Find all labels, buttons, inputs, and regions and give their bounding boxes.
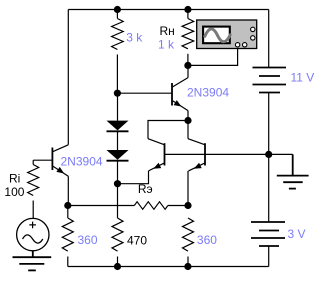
node Q4 emitter / 360R top	[184, 202, 191, 209]
node Q2 emitter / Q4 collector	[184, 117, 191, 124]
node 470 bottom	[114, 263, 121, 270]
svg-text:Rн: Rн	[160, 24, 175, 38]
wire bottom rail	[68, 266, 269, 268]
wire shared base rail to ground tap	[165, 153, 293, 155]
svg-text:Ri: Ri	[9, 172, 20, 186]
resistor 360 (right)	[183, 218, 194, 251]
wire Ri to AC source	[32, 201, 34, 219]
wire 360L to bottom rail	[67, 257, 69, 267]
wire 470 to bottom rail	[117, 257, 119, 267]
svg-text:2N3904: 2N3904	[187, 85, 229, 99]
wire Q3 emitter to diode node	[118, 171, 149, 184]
resistor Rэ	[68, 205, 135, 207]
transistor Q2 2N3904 (output follower)	[117, 65, 188, 120]
svg-text:3 k: 3 k	[126, 31, 143, 45]
node diode bottom / Q3 emitter	[114, 180, 121, 187]
wire scope probe to output node	[188, 49, 238, 66]
battery 3 V	[251, 154, 285, 266]
svg-text:3 V: 3 V	[288, 227, 306, 241]
wire Q1 base down to Ri	[32, 160, 34, 164]
resistor Ri 100	[28, 165, 39, 196]
wire Q1 emitter down to Re rail	[67, 176, 69, 205]
transistor Q3 2N3904 (mirrored, left of pair)	[148, 139, 165, 171]
wire node X (Q2 emitter) to T3 collector	[148, 121, 188, 139]
node 360R bottom	[184, 263, 191, 270]
svg-text:1 k: 1 k	[158, 37, 175, 51]
svg-text:100: 100	[4, 185, 24, 199]
node Q1 emitter / 360L top	[64, 202, 71, 209]
battery 11 V	[253, 68, 287, 93]
diode D1	[107, 93, 129, 131]
wire D2 down through crossing to 470	[117, 161, 119, 218]
wire top rail	[68, 9, 268, 11]
resistor 360 (left)	[67, 206, 69, 219]
svg-text:11 V: 11 V	[291, 71, 315, 85]
resistor 3k	[116, 10, 118, 19]
wire D1 to D2	[117, 131, 119, 150]
resistor 470	[112, 218, 123, 251]
node Q2 base / diode top	[114, 90, 121, 97]
svg-text:470: 470	[127, 234, 147, 248]
node output (Rн bottom)	[184, 62, 191, 69]
resistor Rн 1k	[187, 10, 189, 19]
wire 360R to bottom rail	[187, 257, 189, 267]
wire 3k to base node	[116, 55, 118, 94]
svg-text:360: 360	[78, 233, 98, 247]
node 11V/3V mid rail	[265, 151, 272, 158]
oscilloscope XSC1	[197, 20, 257, 49]
node top-3k	[114, 6, 121, 13]
ground (below AC source)	[13, 251, 52, 271]
AC source V1	[17, 218, 49, 250]
svg-text:Rэ: Rэ	[138, 182, 153, 196]
diode D2	[107, 150, 129, 161]
ground (right, mid node)	[277, 154, 309, 188]
svg-text:2N3904: 2N3904	[61, 154, 103, 168]
wire left vertical (Q1 collector to top rail)	[67, 10, 69, 145]
transistor Q1 2N3904 (input stage)	[33, 145, 68, 176]
wire 11V battery to mid node	[268, 93, 270, 155]
svg-text:360: 360	[197, 233, 217, 247]
transistor Q4 2N3904 (mirrored, right of pair)	[188, 121, 205, 206]
wire Rн to output node	[187, 54, 189, 66]
wire right vertical (top rail to 11V battery)	[268, 10, 270, 68]
node top-Rн	[184, 6, 191, 13]
